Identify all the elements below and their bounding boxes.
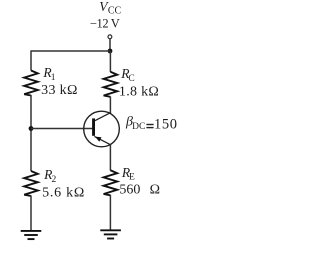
wire base horizontal [31, 128, 93, 130]
resistor RC [104, 72, 118, 97]
wire left vertical upper [30, 50, 32, 70]
transistor emitter arrow [95, 137, 102, 142]
ground right [100, 230, 121, 238]
transistor emitter lead [94, 136, 110, 144]
wire right vertical upper [109, 51, 111, 72]
wire left vertical lower [30, 196, 32, 231]
transistor base bar [92, 118, 95, 135]
svg-text:1.8 kΩ: 1.8 kΩ [119, 85, 159, 100]
node junction top [108, 49, 113, 54]
resistor R2 [24, 171, 38, 196]
svg-text:560: 560 [119, 183, 140, 198]
svg-text:DC: DC [132, 122, 145, 132]
resistor RE [104, 170, 118, 195]
svg-text:−12 V: −12 V [90, 17, 120, 31]
svg-text:C: C [128, 74, 134, 84]
node base junction [29, 126, 34, 131]
wire collector to transistor [109, 97, 111, 114]
svg-text:150: 150 [154, 117, 178, 133]
svg-text:2: 2 [52, 175, 57, 185]
svg-text:5.6 kΩ: 5.6 kΩ [42, 186, 85, 201]
transistor Q1 circle [84, 111, 120, 147]
svg-text:1: 1 [51, 73, 56, 83]
wire emitter down [109, 145, 111, 171]
wire terminal to junction [109, 38, 111, 51]
svg-text:E: E [129, 173, 135, 183]
svg-text:CC: CC [108, 5, 122, 16]
resistor R1 [24, 71, 38, 96]
wire right vertical lower [109, 195, 111, 230]
wire top horizontal [31, 50, 110, 52]
wire left vertical middle [30, 95, 32, 171]
svg-text:Ω: Ω [150, 183, 160, 198]
svg-text:33 kΩ: 33 kΩ [41, 83, 78, 98]
transistor collector lead [94, 113, 110, 121]
ground left [21, 231, 42, 239]
node VCC terminal [108, 35, 112, 39]
